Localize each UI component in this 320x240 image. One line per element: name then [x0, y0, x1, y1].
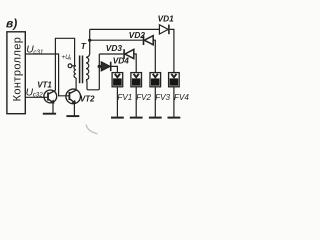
svg-text:п: п: [69, 56, 72, 61]
ground FV2: [130, 117, 143, 119]
transformer T secondary winding: [86, 57, 89, 79]
svg-text:FV3: FV3: [155, 93, 170, 102]
wire FV4 to ground: [173, 87, 175, 117]
wire VD4 to FV1: [111, 66, 118, 72]
svg-text:FV2: FV2: [136, 93, 151, 102]
arrester FV2: [131, 73, 142, 87]
node secondary tap: [88, 39, 91, 42]
wire VD4 branch: [99, 65, 101, 67]
transformer T primary winding: [74, 66, 76, 78]
arrester FV1: [112, 73, 123, 87]
svg-text:VT2: VT2: [80, 94, 95, 103]
wire top rail: [90, 28, 160, 30]
wire VD1 to FV4: [170, 29, 174, 72]
controller box U1: [7, 32, 25, 114]
svg-text:VT1: VT1: [37, 80, 51, 89]
transistor VT1: [44, 90, 57, 103]
diode VD3: [124, 49, 134, 59]
ground FV3: [149, 117, 162, 119]
terminal +Un: [68, 64, 72, 68]
label +Un: [61, 54, 71, 61]
wire FV3 to ground: [154, 87, 156, 117]
svg-text:T: T: [81, 41, 87, 51]
svg-text:Контроллер: Контроллер: [12, 37, 24, 102]
svg-text:VD1: VD1: [158, 14, 175, 24]
svg-text:VD3: VD3: [106, 43, 123, 53]
wire Uc31: [25, 54, 68, 96]
arrester FV3: [150, 73, 161, 87]
ground FV1: [111, 117, 124, 119]
svg-text:в): в): [6, 17, 17, 31]
svg-text:FV1: FV1: [117, 93, 132, 102]
wire secondary bottom to bus: [86, 54, 99, 90]
svg-text:VD4: VD4: [113, 56, 130, 66]
scan artifact arc: [86, 125, 98, 134]
svg-text:с31: с31: [33, 49, 43, 56]
label Uc31: [26, 44, 43, 56]
wire VD3 to FV2: [134, 54, 136, 73]
wire VD2 branch: [90, 39, 143, 41]
wire VT2 collector (primary bottom lead): [75, 78, 77, 90]
wire FV2 to ground: [135, 87, 137, 117]
wire VD2 to FV3: [153, 40, 155, 72]
wire VT1 collector to primary top: [55, 38, 74, 90]
wire FV1 to ground: [116, 87, 118, 117]
ground FV4: [168, 117, 181, 119]
diode VD4: [101, 62, 110, 71]
wire secondary top lead: [86, 29, 90, 57]
wire VD3 branch: [99, 53, 123, 55]
wire +Un to primary: [72, 65, 76, 67]
transistor VT2: [66, 89, 81, 104]
node bus VD4 junction: [98, 65, 101, 68]
wire VT1 emitter: [52, 103, 54, 114]
wire VT2 emitter: [73, 103, 75, 116]
ground VT1: [43, 113, 56, 115]
label Uc32: [26, 88, 44, 99]
svg-text:FV4: FV4: [174, 93, 189, 102]
ground VT2: [66, 115, 79, 117]
transformer T core: [80, 56, 83, 84]
diode VD2: [144, 35, 154, 45]
arrester FV4: [169, 73, 180, 87]
diode VD1: [159, 25, 169, 35]
wire Uc32: [25, 96, 47, 98]
svg-text:VD2: VD2: [129, 30, 146, 40]
